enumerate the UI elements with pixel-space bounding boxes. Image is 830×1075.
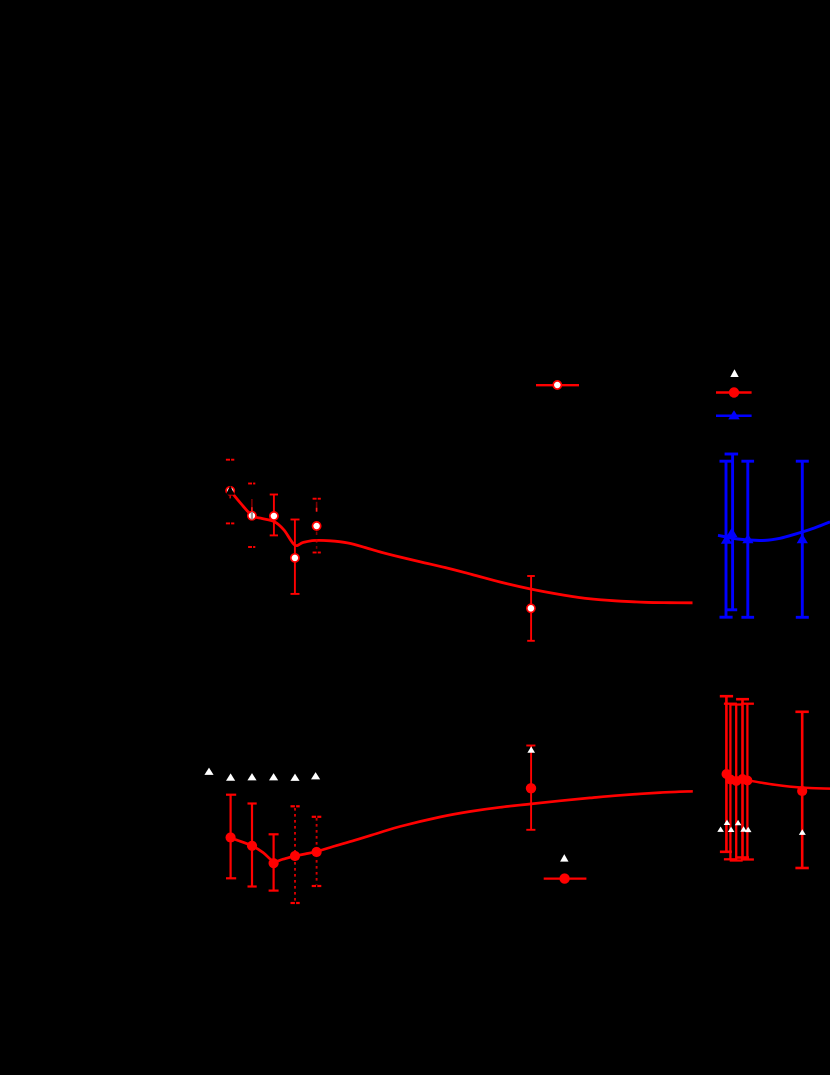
cluster bar 4 [736, 699, 749, 857]
white triangle b1 [204, 768, 213, 775]
extrapolated point error bar, top panel (x=531) [527, 576, 535, 641]
data point 1 top panel: open circle [226, 487, 234, 495]
blue error bar 1b [720, 461, 733, 617]
solid error bar, point 4 top panel [291, 520, 300, 594]
far right error bar bottom panel [795, 712, 808, 868]
extrapolated point circle, top panel [527, 604, 535, 612]
blue error bar 2 [741, 461, 754, 617]
dashed error bar, point 2 top panel [248, 484, 255, 548]
legend bottom: red circle [559, 873, 569, 883]
data point M4 bottom: filled circle [290, 851, 300, 861]
data point M5 bottom: filled circle [312, 847, 322, 857]
legend red line [716, 391, 752, 394]
error bar M2 bottom panel [248, 804, 257, 887]
top red fit curve [231, 491, 693, 603]
cluster white triangle 5 [740, 826, 747, 831]
blue triangle 2 [742, 534, 753, 543]
data point M1 bottom: filled circle [226, 832, 236, 842]
blue error bar 3 [796, 461, 809, 617]
error bar M1 bottom panel [226, 795, 236, 879]
legend bottom: red line [544, 877, 587, 879]
legend blue triangle [728, 410, 740, 419]
blue triangle 1b (upper) [726, 528, 737, 538]
cluster circle 4 [738, 774, 748, 784]
data point 3 top panel: open circle [270, 512, 278, 520]
cluster bar 1 [720, 696, 733, 852]
cluster white triangle 2 [724, 820, 731, 825]
cluster bar 3 (dashed) [730, 705, 743, 861]
error bar M3 bottom panel [269, 834, 279, 890]
blue error bar 1a [725, 454, 739, 610]
legend white triangle [730, 369, 738, 377]
dashed error bar, point 1 top panel [226, 460, 234, 524]
blue triangle 1 [721, 534, 732, 543]
dashed error bar M5 bottom panel [312, 817, 322, 886]
bottom red fit curve [226, 791, 693, 862]
dashed error bar M4 bottom panel [291, 806, 300, 903]
far right circle bottom panel [797, 786, 807, 796]
white triangle b5 [290, 774, 299, 781]
blue triangle 3 [797, 534, 808, 543]
legend blue line [716, 414, 752, 417]
white triangle b3 [247, 773, 256, 780]
white triangle b2 [226, 773, 235, 780]
physical point circle, top panel [553, 381, 561, 389]
cluster bar 2 (dashed) [724, 704, 737, 860]
data point 5 top panel: open circle [313, 522, 321, 530]
cluster white triangle 4 [735, 820, 742, 825]
extrapolated point circle, bottom panel: filled [526, 783, 536, 793]
cluster circle 5 [742, 776, 752, 786]
far right white triangle bottom panel [799, 829, 806, 835]
data point M2 bottom: filled circle [247, 841, 257, 851]
data point 2 top panel: open circle [248, 512, 256, 520]
cluster circle 1 [722, 769, 732, 779]
cluster white triangle 1 [717, 827, 724, 832]
blue fit curve [718, 522, 830, 541]
cluster white triangle 6 [745, 827, 752, 832]
extrapolated point error bar, bottom panel (x=531) [526, 746, 535, 830]
physical point, top panel: horizontal error bar [536, 384, 579, 386]
legend bottom: white triangle [560, 854, 568, 862]
grey stripe over point 2 (dashed bar crossing marker) [251, 512, 253, 520]
cluster white triangle 3 [728, 827, 735, 832]
white triangle at top of extrapolated bar [527, 746, 535, 752]
dashed error bar, point 5 top panel [313, 499, 321, 553]
solid error bar, point 3 top panel [270, 495, 278, 536]
white triangle b4 [269, 773, 278, 780]
white triangle b6 [311, 772, 320, 779]
cluster circle 2 [726, 775, 736, 785]
cluster circle 3 [731, 776, 741, 786]
data point M3 bottom: filled circle [269, 858, 279, 868]
cluster bar 5 (dashed) [741, 704, 754, 860]
data point 4 top panel: open circle [291, 554, 299, 562]
experiment triangle overlay (black) on point 1 [226, 486, 235, 495]
short red curve, right cluster [749, 780, 830, 788]
legend red circle [729, 387, 739, 397]
